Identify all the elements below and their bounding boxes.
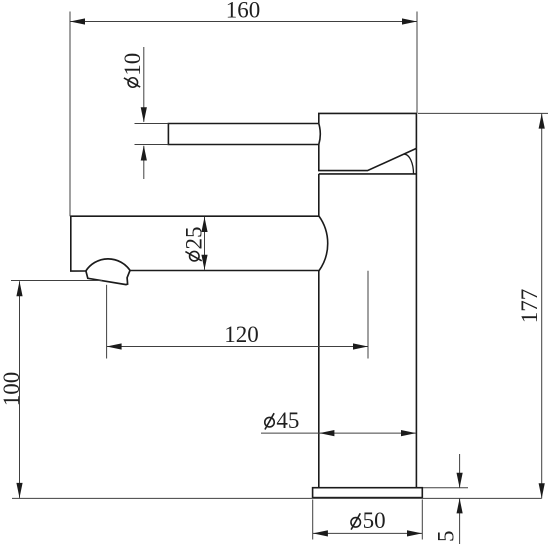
svg-text:50: 50	[363, 508, 386, 533]
dimension phi25 arrowheads	[201, 217, 207, 270]
dimension phi45 dimension line	[261, 432, 416, 434]
dimension phi45 value label	[265, 408, 300, 433]
body column left edge lower segment	[318, 271, 320, 488]
lever handle rod outline	[168, 124, 318, 145]
dimension 177 dimension line	[541, 113, 543, 498]
handle housing top and right edges	[319, 113, 417, 148]
svg-text:5: 5	[434, 531, 459, 543]
dimension phi10 dimension line	[143, 47, 145, 179]
spout top and left edges	[71, 216, 319, 271]
svg-text:10: 10	[120, 53, 145, 76]
dimension phi50 arrowheads	[313, 530, 422, 536]
body column right edge	[415, 148, 417, 487]
mounting surface ground line	[12, 497, 542, 499]
spout bottom edge	[130, 270, 319, 272]
dimension 100 top extension line	[11, 280, 102, 282]
dimension phi10 extension lines	[135, 124, 169, 145]
housing-body seam line	[319, 173, 417, 175]
dimension 160 arrowheads	[70, 18, 417, 24]
dimension phi50 dimension line	[313, 532, 422, 534]
dimension 120 left extension line	[106, 285, 108, 359]
dimension 177 value label	[517, 289, 542, 324]
dimension 120 value label	[224, 322, 259, 347]
dimension 100 arrowheads	[16, 281, 22, 498]
dimension phi25 dimension line	[204, 217, 206, 270]
dimension phi10 value label	[120, 53, 145, 87]
aerator nozzle dome	[86, 259, 130, 271]
dimension 177 arrowheads	[539, 114, 545, 499]
dimension 5 dimension line	[459, 454, 461, 544]
dimension phi50 value label	[351, 508, 386, 533]
dimension 120 arrowheads	[107, 343, 368, 349]
dimension phi50 right extension line	[421, 500, 423, 540]
dimension 160 value label	[226, 0, 261, 23]
svg-text:160: 160	[226, 0, 261, 23]
base flange	[313, 488, 423, 498]
dimension phi50 left extension line	[312, 500, 314, 540]
body column left edge upper segment	[318, 174, 320, 216]
svg-text:25: 25	[182, 227, 207, 250]
aerator nozzle cup	[86, 270, 130, 284]
svg-text:45: 45	[276, 408, 299, 433]
dimension 100 value label	[0, 372, 24, 407]
dimension 5 arrowheads	[457, 473, 463, 514]
dimension 5 value label	[434, 531, 459, 543]
dimension 120 right extension centre line	[367, 271, 369, 359]
dimension 120 dimension line	[107, 346, 368, 348]
dimension phi25 value label	[182, 227, 207, 261]
dimension phi45 arrowheads	[319, 430, 416, 436]
svg-text:177: 177	[517, 289, 542, 324]
dimension 100 dimension line	[19, 281, 21, 498]
dimension phi10 arrowheads	[141, 107, 147, 160]
svg-text:120: 120	[224, 322, 259, 347]
dimension 160 right extension line	[416, 12, 418, 114]
handle housing left edge and angled bottom	[319, 145, 417, 171]
handle housing elliptical face arc	[404, 154, 413, 174]
dimension 5 top extension line	[423, 487, 468, 489]
svg-text:100: 100	[0, 372, 24, 407]
lever rod end fillet curve	[319, 124, 320, 145]
dimension 177 top extension line	[418, 112, 548, 114]
spout-to-body fillet bulge	[319, 216, 328, 271]
dimension 160 dimension line	[70, 21, 417, 23]
dimension 160 left extension line	[69, 12, 71, 217]
